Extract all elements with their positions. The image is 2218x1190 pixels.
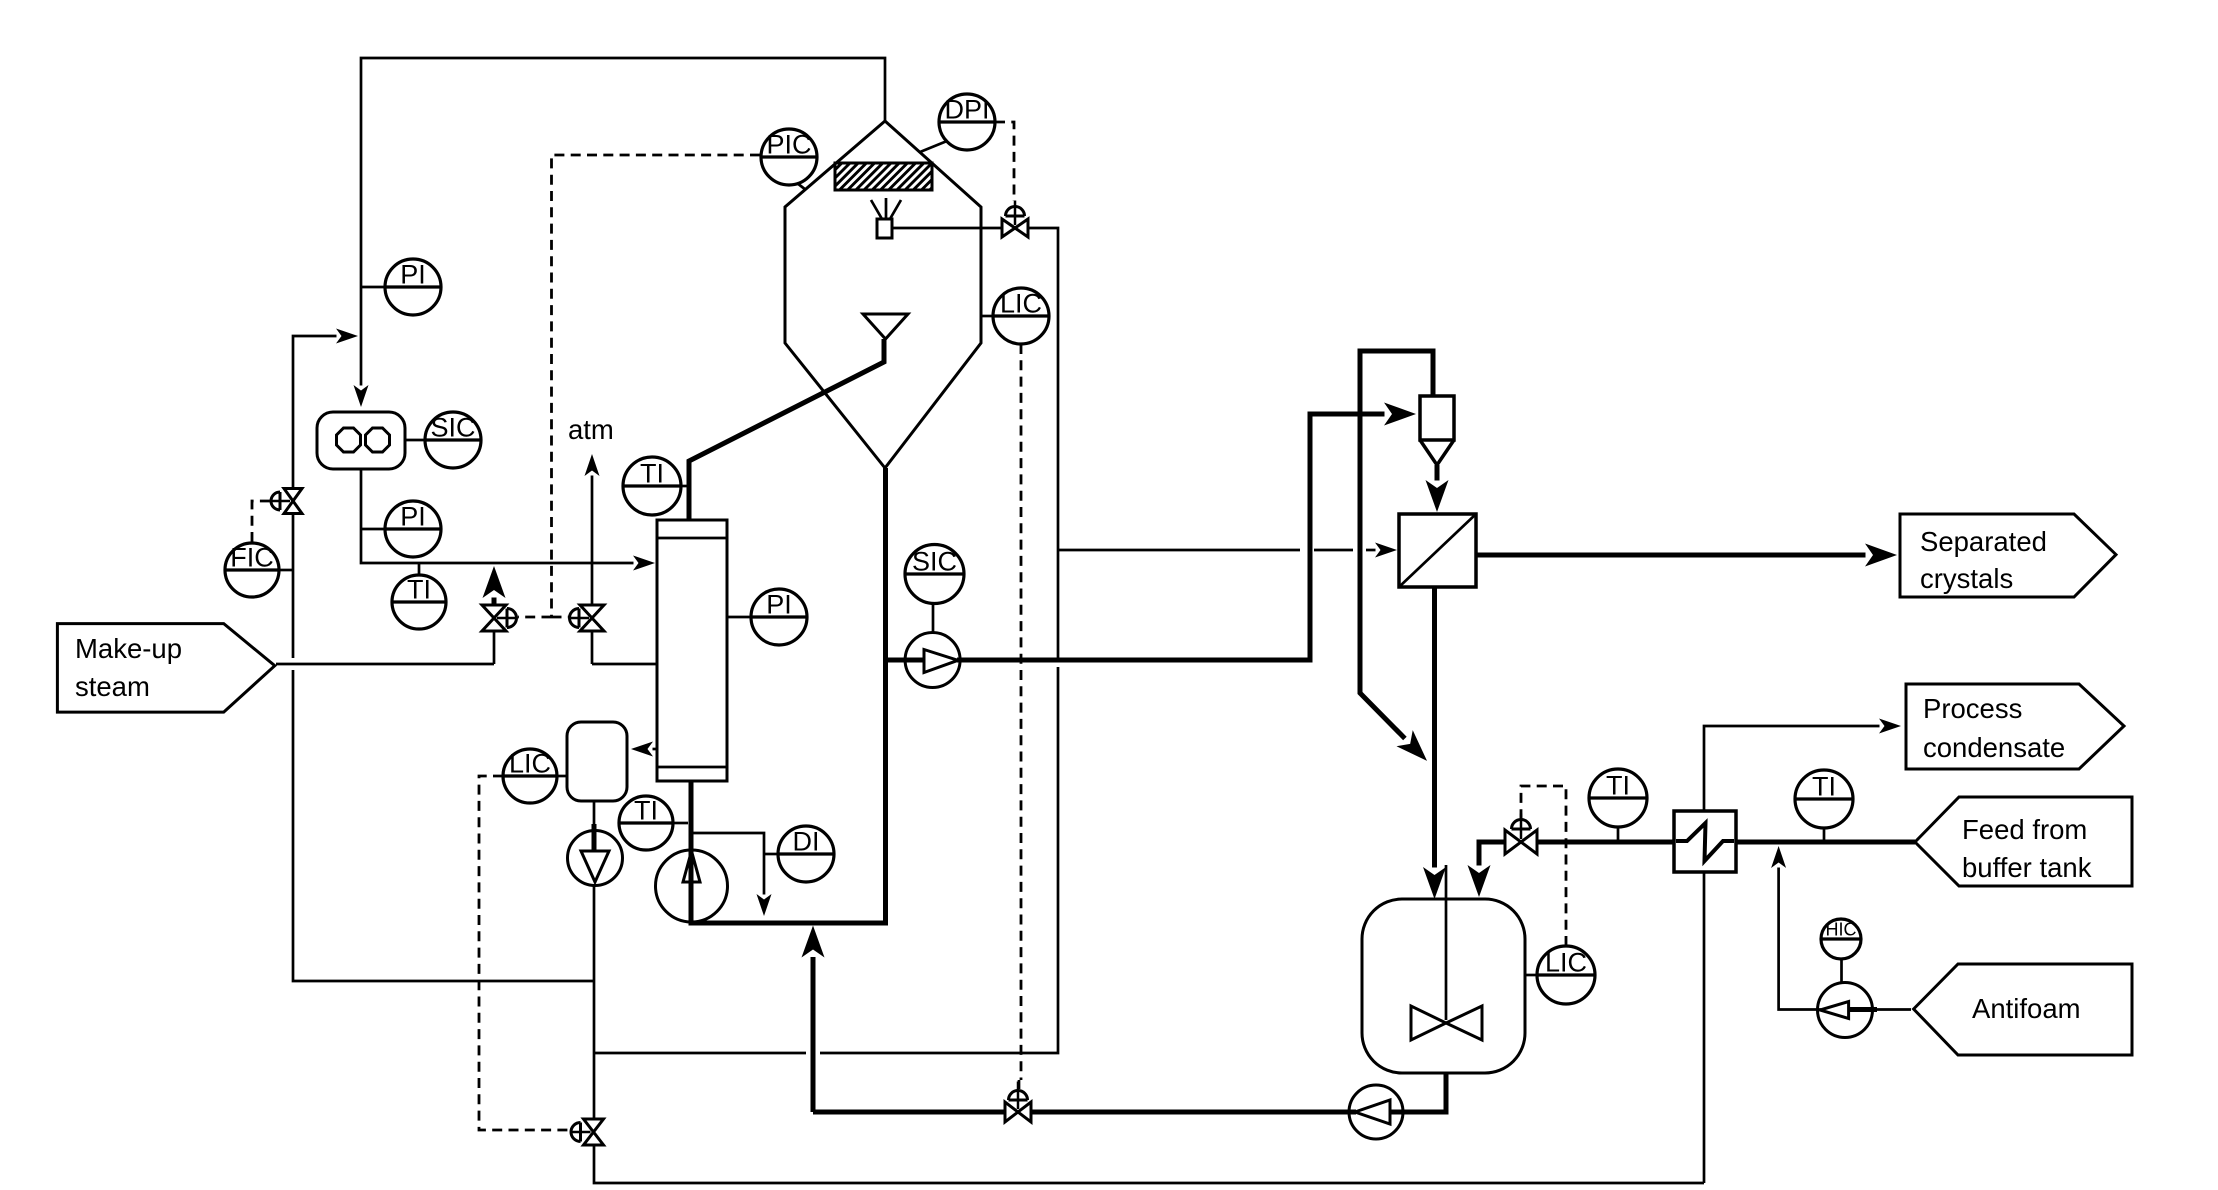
svg-text:Process: Process [1923,693,2022,724]
svg-text:Make-up: Make-up [75,633,182,664]
svg-text:FIC: FIC [230,543,274,573]
svg-text:condensate: condensate [1923,732,2065,763]
svg-text:Separated: Separated [1920,526,2047,557]
svg-text:TI: TI [640,459,664,489]
svg-text:TI: TI [1606,771,1630,801]
svg-text:Feed from: Feed from [1962,814,2087,845]
svg-text:HIC: HIC [1826,920,1857,940]
svg-text:SIC: SIC [430,413,475,443]
svg-text:LIC: LIC [1000,289,1042,319]
svg-text:TI: TI [1812,772,1836,802]
svg-text:TI: TI [407,575,431,605]
svg-text:crystals: crystals [1920,563,2013,594]
svg-text:TI: TI [634,796,658,826]
svg-text:SIC: SIC [912,547,957,577]
svg-text:Antifoam: Antifoam [1972,993,2081,1024]
svg-text:buffer tank: buffer tank [1962,852,2092,883]
svg-text:LIC: LIC [1545,948,1587,978]
svg-text:PI: PI [766,590,792,620]
svg-text:PI: PI [400,502,426,532]
svg-text:DI: DI [793,827,820,857]
svg-text:PI: PI [400,260,426,290]
svg-text:LIC: LIC [509,749,551,779]
svg-text:atm: atm [568,414,614,445]
svg-text:steam: steam [75,671,150,702]
svg-text:DPI: DPI [944,95,989,125]
svg-text:PIC: PIC [766,130,811,160]
